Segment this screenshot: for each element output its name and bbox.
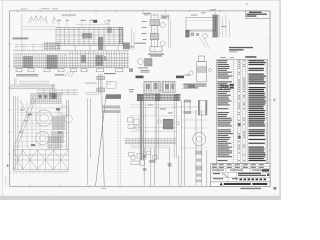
X bracing chords and base [13,150,69,172]
G hatch [197,66,207,73]
front view fine ticks [14,54,67,68]
plan body dark assembly 1 [82,33,92,39]
elevation right column pair [66,100,68,150]
G caption text lines [184,84,207,89]
extra bottom fittings left [147,152,158,160]
front dark cluster 2 [47,55,58,69]
front dark cluster 1 [23,56,33,68]
F centerline above stem [214,9,216,18]
elevation extra small marks [28,108,62,146]
plan body end flange [120,27,123,44]
elevation platform dark bit [49,93,57,99]
front feet boxes [16,69,123,72]
zone ticks top border [18,9,221,12]
tick above note box [246,3,248,4]
F dark right stem [213,15,218,38]
boom head dark [106,94,121,99]
dashed verticals [118,108,121,185]
D flanged wheel B [198,101,207,116]
front dark blob top-right [123,43,130,50]
rails left of column [85,83,97,84]
logo triangle [220,183,223,186]
F inner faint line [187,19,216,21]
elevation gear circles right [59,106,72,123]
horizontal segments mid-left [19,81,49,84]
E label box [161,15,169,19]
parts table outline [217,60,268,164]
plan body rails [56,28,123,46]
note box text lines [246,12,267,17]
caption underline 2 [55,74,65,75]
title block col dividers upper [218,164,258,173]
E centerline [154,13,156,53]
plan body vertical dividers [56,28,123,46]
note text lines near table [229,47,253,48]
small marks x128 y89 [129,89,134,92]
zone ticks bottom border [30,185,180,188]
callout dark blob [93,20,97,23]
F marks above box [191,12,206,15]
top chain of small circles [62,14,76,16]
center mid horizontals [130,105,177,131]
elevation gearbox dark cluster [52,116,65,130]
X bracing columns [13,149,68,170]
E left label dash [135,43,146,44]
parts table qty marks [238,60,244,161]
center horizontal band lower [125,139,177,144]
elevation A-frame diagonals [14,97,36,148]
plan legs [60,45,118,50]
tiny dash below bottom frame left [102,187,107,190]
parts table column lines [234,60,267,164]
plan body dark assembly 2 vertical [98,37,103,50]
elevation platform ticks [31,93,60,104]
hatch marks small left [65,71,74,77]
center groups dark bits [146,84,150,89]
title block right-end dark block row1 [262,169,269,171]
center dense band [137,94,181,100]
E left dim texts [142,21,147,40]
F leaders down [199,37,210,49]
tiny text below top border [143,13,152,14]
D verticals [182,101,207,186]
elevation top platform horizontals [30,94,62,104]
fittings on bottom verticals [143,155,172,171]
center upper scattered marks [148,105,173,114]
front cluster 5 [104,56,107,61]
center labels small dark [141,70,150,73]
F tank open rectangle [186,18,216,31]
small gear detail left of E [138,59,144,65]
paper background [0,0,281,200]
F dark left cap [185,30,189,37]
texture block between plan and front view [45,42,59,50]
scanner gray bottom edge [0,196,281,200]
small text right of center band [188,85,195,88]
long diagonal boom [96,95,107,186]
parts list title [245,56,256,58]
F dim verticals right [220,15,230,38]
zone letter right margin [273,99,275,101]
elevation dense bottom-center cluster [48,136,61,150]
bottom verticals to frame [144,148,179,186]
front view rails [14,50,130,54]
D circle [193,132,206,145]
elevation few verticals light [22,102,32,148]
G side circles [189,68,212,75]
boom column flange boxes [97,77,105,80]
tiny text dash left of gear detail [128,45,135,48]
E dim verticals [169,15,171,48]
center columns descending [140,101,143,160]
elevation scattered marks [19,110,28,133]
E hatches [150,20,160,26]
faint marks above top frame [21,8,59,9]
caption underline 1 [16,74,38,75]
G body [197,56,207,82]
F small parts below box [191,33,200,37]
table middle dark dots [238,123,241,126]
hatched label boxes [103,106,121,109]
dense band dark accents [137,94,144,101]
E stacked parts [150,15,162,52]
D tie horizontals [181,112,207,148]
dimension vertical right of plan [132,28,135,50]
center component group right [162,81,175,92]
ground hatch [10,171,68,174]
front cluster 4 with circle [95,55,103,66]
column assembly above boom head [98,74,102,94]
sheet stamp below frame right [273,187,276,190]
center-left small parts cluster [128,118,140,130]
title block outline [211,164,270,187]
title block col dividers mid [228,172,237,182]
plan body assembly 3 [107,28,112,34]
right edge small dark bit [267,174,269,177]
long extension line left [21,14,23,53]
peak verticals [31,17,54,24]
front dark cluster 3 [81,55,86,63]
small dark blob x129 y68 [129,68,133,72]
table header small dashes [220,56,234,59]
center small circles around block [158,120,180,125]
lines below band [130,146,170,148]
zone ticks right border [269,40,272,150]
company name bold [224,183,251,185]
D lower components [195,151,202,183]
company logo row [211,182,270,186]
X bracing band [13,150,68,170]
title block small texts [212,164,266,170]
left margin tick low [5,177,8,185]
F tiny texts right [210,9,226,27]
elevation lower circle [36,131,50,145]
bottom small parts cluster [129,153,145,166]
zone ticks left border [8,44,11,154]
center groups inner vertical ticks [145,82,174,93]
E circles [160,23,165,47]
platform dark fittings row [39,94,56,98]
peak skyline curves [28,16,58,24]
stamp side dark marks [229,84,233,86]
punch mark left margin [7,165,8,167]
callout text row [57,19,111,22]
elevation left columns [13,96,18,170]
caption underline 3 [104,73,116,74]
F small circle below [203,34,208,39]
drawing number below frame [241,188,262,189]
callout circle right [105,20,109,24]
center component group left [144,81,160,93]
signature scribble [222,174,228,177]
title block row lines [211,166,270,182]
center dark hatched block [163,119,173,129]
gear detail caption [138,66,148,69]
scanner gray top edge [0,0,281,2]
paper left edge line [1,1,4,196]
F line below box [186,30,216,32]
drawing border frame [10,11,270,186]
note box top-right [245,11,270,18]
callout baseline [76,24,110,26]
scanner gray right edge [279,0,281,200]
callout leaders [59,21,109,27]
left short verticals [15,79,17,85]
D flanged part A [185,100,190,114]
parts table number column dark texts [249,60,266,161]
cluster under front view [37,90,78,95]
side box right of column [107,82,117,89]
plan body centerline [55,35,124,37]
parts table row lines [217,62,268,162]
faint horizontals from ext line [22,27,56,30]
elevation machinery extra lines [20,115,66,142]
view label with underline top-left [13,38,29,39]
digit row in title block [240,178,267,180]
title text block dense [213,173,266,179]
front dim band horizontals [15,45,55,47]
parts table name texts [217,60,233,161]
E caption under stack [148,54,164,57]
dim extensions right of center [181,85,191,89]
D tie between parts [174,106,198,108]
tall thin column [87,98,90,185]
column pair above platform [53,84,54,99]
elevation flywheel circle [36,110,52,126]
elevation web horizontals light [18,108,66,146]
